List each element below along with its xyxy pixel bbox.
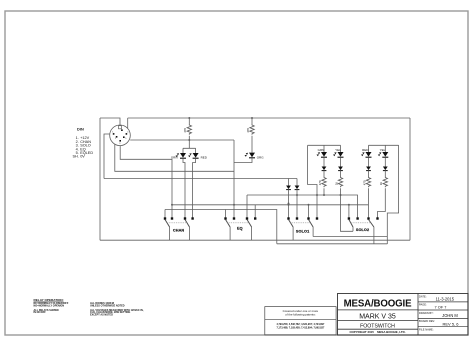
wire R3 to bus	[323, 188, 325, 195]
wire riser SW4 t3	[368, 205, 370, 218]
svg-text:GRN: GRN	[318, 148, 325, 152]
svg-text:DATE:: DATE:	[419, 294, 427, 298]
diode D13	[295, 186, 300, 190]
junction node R1 top bus	[188, 117, 190, 119]
wire bus204 to SW4 t1	[348, 205, 350, 218]
wire net bus 195	[247, 195, 358, 217]
svg-text:1K: 1K	[379, 182, 383, 186]
wire bus204 to SW3 t3	[308, 205, 310, 218]
wire R4 down jog to SW4 pole	[341, 188, 354, 231]
svg-text:FOOTSWITCH: FOOTSWITCH	[360, 323, 395, 329]
junction 288.5,203.5	[288, 203, 290, 205]
relay operation notes	[34, 298, 69, 314]
svg-text:7,173,488; 7,193,458; 7,412,: 7,173,488; 7,193,458; 7,412,894; 7,962,8…	[276, 327, 324, 330]
wire ORG cathode left	[234, 158, 252, 163]
wire GRN/YEL pair top	[308, 145, 341, 152]
wire R6 down to SW4	[378, 188, 386, 218]
wire GRN/YEL feed jog down to SW3 t4	[308, 145, 317, 217]
svg-text:FILE NAME:: FILE NAME:	[419, 328, 434, 332]
wire rail A	[313, 236, 387, 238]
junction node R2 top bus	[251, 117, 253, 119]
wire D12 to SW3	[288, 190, 290, 218]
svg-text:SOLO1: SOLO1	[296, 229, 309, 233]
wire bus209 to SW1 t1	[164, 210, 166, 218]
junction node R1/DIN wire	[188, 139, 190, 141]
junction node SW3t3 bus204	[308, 204, 310, 206]
wire node vertical down to SW2 t2	[233, 163, 235, 218]
wire net EQLED horizontal bus	[104, 178, 297, 180]
svg-text:470: 470	[183, 128, 187, 133]
LED D3 ORG	[245, 153, 256, 158]
svg-text:DIN: DIN	[77, 128, 84, 132]
wire DIN pin to top bus	[127, 118, 129, 128]
junction node feed bus195	[316, 194, 318, 196]
switch SW3 SOLO1	[287, 217, 318, 240]
resistor R1 470	[183, 124, 191, 135]
svg-text:470: 470	[246, 128, 250, 133]
switch SW2 EQ	[224, 217, 256, 240]
svg-text:GRN: GRN	[171, 156, 178, 160]
resistor R2 470	[246, 124, 254, 135]
svg-text:SOLO2: SOLO2	[356, 228, 369, 232]
wire rail C	[277, 243, 388, 245]
wire bus195 corner to SW2 t3	[246, 195, 248, 217]
diode D7	[338, 167, 343, 171]
svg-text:PAGE:: PAGE:	[419, 302, 427, 306]
wire far right vertical	[409, 118, 411, 240]
wire D7 to R4	[340, 171, 342, 177]
wire D13 down to SW3 t2	[296, 190, 298, 218]
wire bus to D13	[296, 179, 298, 186]
svg-text:4,793,253; 4,532,762; 4,631,: 4,793,253; 4,532,762; 4,631,967; 4,724,8…	[276, 323, 324, 326]
svg-text:IN NC/OFF: IN NC/OFF	[34, 311, 47, 314]
wire D11 to R6	[384, 171, 386, 177]
connector J1 DIN	[110, 125, 131, 146]
wire bus to D12	[288, 179, 290, 186]
wire R5 to bus	[368, 188, 370, 205]
LED D5 YEL	[333, 152, 344, 157]
junction node riser bus204	[171, 204, 173, 206]
wire top bus to R2	[251, 118, 253, 124]
wire +12V top bus	[128, 117, 410, 119]
wire net bus 209	[165, 210, 277, 244]
LED D2 RED	[188, 153, 199, 158]
wire DIN pin4 right to node	[130, 139, 234, 141]
wire net bus 204	[172, 204, 369, 206]
wire R1 to LED pair	[188, 136, 190, 149]
svg-text:CHAN: CHAN	[173, 228, 185, 232]
junction node SW4t1 bus204	[348, 204, 350, 206]
LED D8 RED	[361, 152, 372, 157]
junction node R4 bus195	[340, 194, 342, 196]
svg-text:ORG: ORG	[257, 155, 265, 159]
svg-text:COPYRIGHT 2015 MESA BOOGIE,: COPYRIGHT 2015 MESA BOOGIE, LTD.	[349, 330, 405, 334]
junction node vert bus204	[233, 204, 235, 206]
svg-text:0V: 0V	[80, 155, 85, 159]
wire D8 to D10	[368, 157, 370, 166]
wire D4 to D6	[323, 157, 325, 166]
diode D12	[286, 186, 291, 190]
resistor R4 1K	[334, 177, 342, 188]
wire top bus to R1	[188, 118, 190, 124]
wire far left vertical	[99, 118, 101, 240]
svg-text:BOARD REV:: BOARD REV:	[419, 319, 435, 323]
wire D6 to R3	[323, 171, 325, 177]
wire D10 to R5	[368, 171, 370, 177]
wire GRN cathode down to SW1	[183, 158, 185, 218]
svg-text:RED: RED	[201, 156, 208, 160]
junction node D13 bus195	[296, 194, 298, 196]
wire +12V top bus left segment to DIN	[100, 118, 120, 126]
resistor R6 1K	[379, 177, 387, 188]
wire bus209 to SW2 t1	[225, 210, 227, 218]
wire DIN pin2 left exit	[104, 134, 110, 179]
junction node D12 bus204	[288, 204, 290, 206]
wire RED/YEL feed down to rail	[387, 145, 398, 244]
switch SW4 SOLO2	[348, 217, 379, 244]
svg-text:YEL: YEL	[380, 148, 386, 152]
svg-text:470: 470	[318, 180, 322, 185]
svg-text:YEL: YEL	[335, 148, 341, 152]
svg-text:470: 470	[362, 180, 366, 185]
switch SW1 CHAN	[164, 217, 194, 240]
svg-text:RED: RED	[362, 148, 369, 152]
wire D5 to D7	[340, 157, 342, 166]
svg-text:JOHN M: JOHN M	[442, 313, 458, 318]
svg-text:MARK V 35: MARK V 35	[359, 313, 396, 320]
diode and voltage notes	[90, 302, 144, 316]
wire D9 to D11	[384, 157, 386, 166]
svg-text:MESA/BOOGIE: MESA/BOOGIE	[344, 299, 412, 310]
svg-text:of the following patents:: of the following patents:	[285, 313, 316, 317]
wire rail B ground return	[100, 239, 410, 241]
svg-text:1K: 1K	[334, 182, 338, 186]
svg-text:EQ: EQ	[237, 227, 243, 231]
wire R2 to ORG LED	[251, 136, 253, 153]
wire bus204 to SW2 t4	[254, 205, 256, 218]
wire LED pair box top	[183, 148, 196, 153]
svg-text:7 OF 7: 7 OF 7	[435, 305, 447, 310]
DIN pin legend	[72, 128, 93, 159]
svg-text:SH.: SH.	[72, 155, 78, 159]
LED D1 GRN	[176, 153, 187, 158]
diode D11	[383, 167, 388, 171]
svg-text:EXCEPT AS NOTED: EXCEPT AS NOTED	[90, 313, 113, 316]
diode D10	[366, 167, 371, 171]
svg-text:REV 5, 6: REV 5, 6	[442, 321, 459, 326]
wire vertical node upper	[233, 140, 235, 163]
LED D4 GRN	[317, 152, 328, 157]
junction node R3 bus195	[323, 194, 325, 196]
resistor R5 470	[362, 177, 370, 188]
resistor R3 470	[318, 177, 326, 188]
wire DIN pin3 bottom exit A	[115, 144, 234, 171]
svg-text:11-3-2015: 11-3-2015	[436, 297, 455, 302]
wire RED/YEL pair top	[369, 145, 399, 152]
patent box	[265, 307, 336, 335]
LED D9 YEL	[378, 152, 389, 157]
svg-text:DRAWN BY:: DRAWN BY:	[419, 311, 434, 315]
title block	[338, 294, 469, 336]
wire DIN pin5 bottom exit B to SW1	[120, 146, 172, 218]
svg-text:UNLESS OTHERWISE NOTED: UNLESS OTHERWISE NOTED	[90, 304, 125, 307]
wire RED cathode down to SW1	[193, 158, 196, 218]
svg-text:NO=NORMALLY OPEN/ON: NO=NORMALLY OPEN/ON	[34, 304, 65, 307]
diode D6	[322, 167, 327, 171]
